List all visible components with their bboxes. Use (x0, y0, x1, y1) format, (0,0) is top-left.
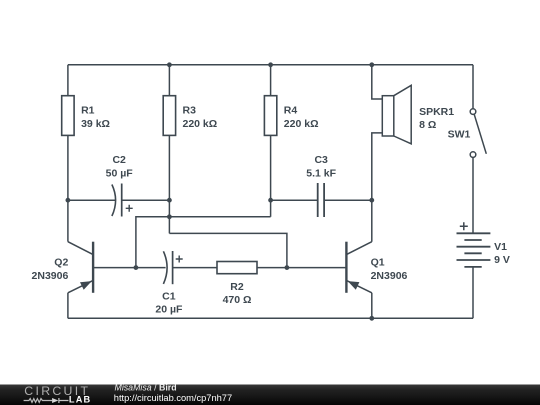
wire speaker column bottom (372, 133, 383, 242)
svg-text:2N3906: 2N3906 (32, 270, 69, 282)
svg-text:5.1 kF: 5.1 kF (306, 167, 336, 179)
resistor R4 (264, 96, 276, 136)
svg-text:C1: C1 (162, 291, 176, 303)
node R3 column C2 (167, 198, 172, 203)
wire Q2 emitter down (67, 293, 69, 319)
wire C3 left (271, 199, 318, 201)
wire battery to bottom rail (472, 267, 474, 318)
svg-text:R1: R1 (81, 105, 95, 117)
transistor Q2 (68, 242, 93, 293)
wire staircase R3 to Q1 base (169, 233, 287, 267)
transistor Q2 emitter arrow (80, 281, 92, 290)
svg-text:MisaMisa / Bird: MisaMisa / Bird (115, 383, 177, 393)
wire switch to battery (472, 157, 474, 233)
battery V1 (457, 233, 491, 267)
node R4 column C3 (268, 198, 273, 203)
wire C1 left (136, 267, 166, 269)
node crossing R3 column (167, 214, 172, 219)
svg-text:Q2: Q2 (54, 257, 68, 269)
node left column C2 (66, 198, 71, 203)
svg-text:R3: R3 (183, 105, 197, 117)
node Q2 base (134, 265, 139, 270)
node top rail speaker (369, 62, 374, 67)
wire switch column top (472, 65, 474, 109)
wire R3 column bottom (168, 135, 170, 233)
wire Q1 emitter down (371, 293, 373, 319)
resistor R1 (62, 96, 74, 136)
wire R4 column bottom (270, 135, 272, 216)
wire C2 right (122, 199, 170, 201)
svg-text:220 kΩ: 220 kΩ (284, 118, 319, 130)
wire C2 left (68, 199, 115, 201)
svg-text:C2: C2 (112, 154, 126, 166)
wire R2 right to Q1 base (257, 267, 346, 269)
node speaker column C3 (369, 198, 374, 203)
logo diode (52, 398, 58, 403)
node Q1 base (285, 265, 290, 270)
wire top rail (68, 64, 473, 66)
wire staircase R4 to Q2 base (136, 217, 271, 268)
transistor Q1 (346, 242, 371, 293)
svg-text:50 µF: 50 µF (106, 167, 134, 179)
svg-text:V1: V1 (494, 241, 507, 253)
node top rail R3 (167, 62, 172, 67)
capacitor C3 (318, 183, 324, 217)
battery V1 plus sign (460, 222, 468, 230)
capacitor C1 (163, 251, 182, 284)
wire Q2 base (93, 267, 136, 269)
svg-text:9 V: 9 V (494, 254, 510, 266)
svg-text:470 Ω: 470 Ω (223, 294, 252, 306)
node bottom rail Q1 emitter (369, 316, 374, 321)
wire R3 column top (168, 65, 170, 96)
transistor Q1 emitter arrow (348, 281, 360, 290)
wire left column middle (67, 135, 69, 241)
svg-text:http://circuitlab.com/cp7nh77: http://circuitlab.com/cp7nh77 (114, 393, 232, 403)
wire C3 right (324, 199, 372, 201)
svg-text:R4: R4 (284, 105, 298, 117)
svg-text:39 kΩ: 39 kΩ (81, 118, 110, 130)
logo resistor zigzag (24, 399, 52, 403)
svg-text:2N3906: 2N3906 (371, 270, 408, 282)
svg-text:LAB: LAB (69, 395, 91, 405)
capacitor C2 (112, 184, 133, 217)
resistor R2 (217, 262, 257, 274)
svg-text:Q1: Q1 (371, 257, 385, 269)
resistor R3 (163, 96, 175, 136)
svg-text:220 kΩ: 220 kΩ (183, 118, 218, 130)
speaker SPKR1 (382, 85, 411, 144)
svg-text:8 Ω: 8 Ω (419, 119, 436, 131)
svg-text:SW1: SW1 (448, 128, 471, 140)
svg-text:C3: C3 (314, 154, 328, 166)
svg-text:20 µF: 20 µF (155, 304, 183, 316)
wire left column top (67, 65, 69, 96)
wire speaker column top (372, 65, 383, 99)
switch SW1 (470, 109, 486, 158)
wire C1 right to R2 (173, 267, 217, 269)
node top rail R4 (268, 62, 273, 67)
wire R4 column top (270, 65, 272, 96)
wire bottom rail (68, 317, 473, 319)
svg-text:R2: R2 (230, 281, 244, 293)
svg-text:SPKR1: SPKR1 (419, 106, 454, 118)
